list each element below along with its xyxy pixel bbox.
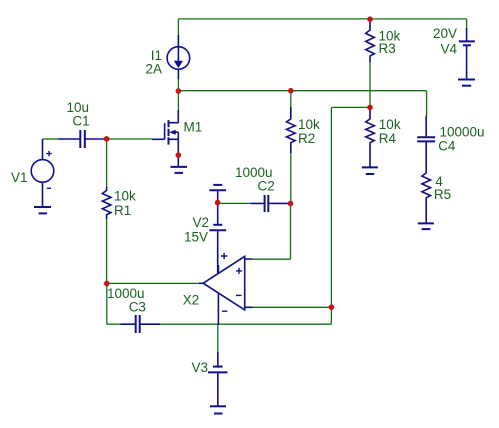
wire C3 row right [140,323,332,325]
ground at R4 [362,167,378,174]
node C2/R2/noninv [288,201,294,207]
svg-text:C2: C2 [258,178,275,193]
wire I1 top lead [177,19,179,35]
voltage source V1 [31,139,54,207]
resistor R4 [366,107,375,167]
svg-text:10k: 10k [114,188,136,203]
ground at V4 [458,80,475,86]
svg-text:R4: R4 [379,131,397,146]
transistor M1 [152,110,178,155]
wire drain node down [177,91,179,110]
node R3/R4 [367,105,373,111]
node I1/M1 drain [176,88,182,94]
svg-text:10000u: 10000u [440,124,485,139]
wire V1 to C1 [43,138,59,140]
wire top rail [178,18,466,20]
current source I1 [167,35,190,79]
ground at R5 [418,223,434,229]
wire C2 left [218,202,251,204]
battery V2 [209,203,226,274]
svg-text:15V: 15V [184,229,208,244]
wire output node down to C3 [106,284,108,325]
op-amp X2 [199,253,253,325]
resistor R1 [102,187,111,219]
wire R3 top stub [369,19,371,22]
capacitor C2 [251,195,291,212]
svg-text:20V: 20V [433,26,457,41]
node V2/C2 [215,200,221,206]
wire R2 top [290,91,292,107]
wire R2 bottom [290,153,292,204]
resistor R3 [366,22,375,62]
battery V4 [459,28,475,80]
node inv input [329,304,335,310]
node M1 source [176,152,182,158]
ground at V1 [34,207,51,213]
wire C1 to gate [107,138,152,140]
wire inv input [253,306,332,308]
svg-text:X2: X2 [183,292,200,307]
wire right column to C4 [426,91,428,116]
node gate/C1/R1 [104,136,110,142]
wire to R3/R4 node [331,106,370,108]
wire C3 row left [107,323,121,325]
svg-text:C1: C1 [72,114,89,129]
wire output node to opamp [107,282,199,284]
svg-text:V2: V2 [192,215,209,230]
wire V4 top lead [466,19,468,28]
resistor R2 [287,107,296,153]
capacitor C4 [417,116,435,157]
wire C3 up to inv node [330,307,332,324]
ground at M1 source [171,155,188,173]
node R3 top [367,16,373,22]
svg-text:V4: V4 [440,41,457,56]
svg-text:10k: 10k [298,117,320,132]
node R2 top [288,88,294,94]
svg-text:10k: 10k [379,117,401,132]
wire noninv node down [290,204,292,260]
svg-text:R1: R1 [114,203,131,218]
capacitor C1 [58,130,107,148]
svg-text:R3: R3 [379,41,396,56]
battery V3 [208,352,228,406]
svg-text:C3: C3 [129,299,146,314]
wire drain rail y=90.7 [178,90,426,92]
svg-text:M1: M1 [184,120,203,135]
node output/R1/C3 [104,281,110,287]
svg-text:R5: R5 [434,187,451,202]
wire I1 bottom to drain node [177,79,179,91]
wire R3 bottom to node [369,62,371,107]
wire noninv to opamp stub [253,258,291,260]
ground at V3 [210,406,226,413]
resistor R5 [422,156,431,223]
svg-text:V1: V1 [11,170,28,185]
wire inv node long vertical [330,107,332,307]
wire R1 bottom to output node [106,219,108,284]
svg-text:C4: C4 [438,139,456,154]
wire gate node down to R1 [106,139,108,187]
svg-text:R2: R2 [298,131,315,146]
capacitor C3 [121,315,161,333]
wire opamp neg supply to V3 [217,325,219,352]
ground flipped above V2 [209,185,226,203]
svg-text:V3: V3 [191,360,208,375]
svg-text:2A: 2A [145,62,162,77]
